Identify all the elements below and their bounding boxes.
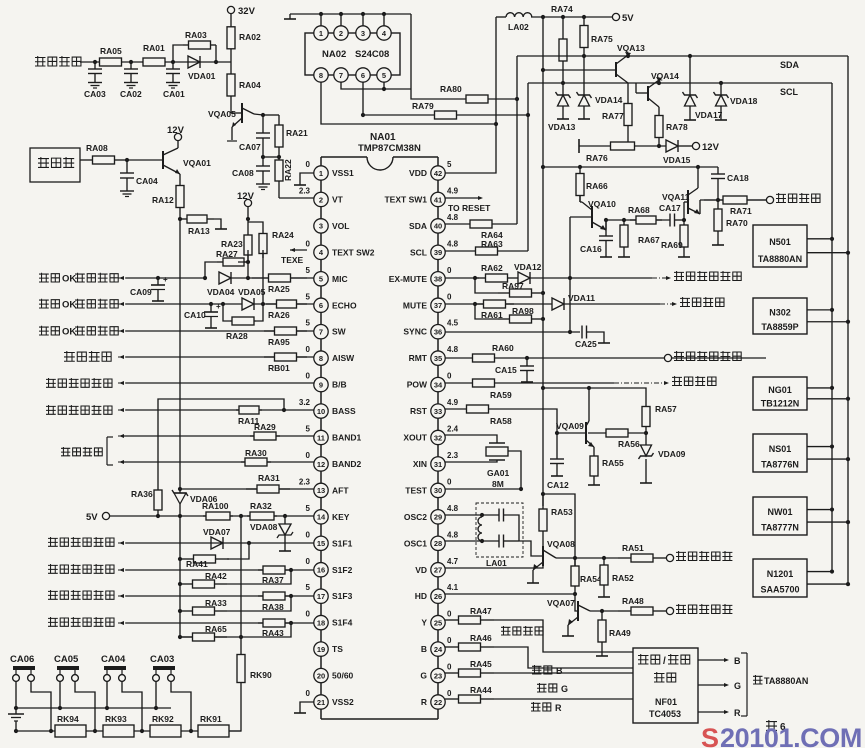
svg-text:0: 0 [447,636,452,645]
junction RA100/RA32 [239,514,243,518]
pin name VSS2 [332,697,354,707]
branch RA97 [475,278,498,293]
capacitor CA09 [130,275,168,297]
svg-text:RA04: RA04 [239,80,261,90]
pin 7 value [306,319,311,328]
svg-text:SDA: SDA [780,60,800,70]
node [261,155,265,159]
wire VDA17 gnd [689,106,691,115]
eeprom pin 5 [377,68,391,82]
wire bottom bus [16,730,241,732]
label 模糊控制 [64,351,111,362]
svg-text:TEXT SW1: TEXT SW1 [384,194,427,204]
svg-text:B: B [556,666,563,676]
svg-text:VQA05: VQA05 [208,109,236,119]
svg-text:RA36: RA36 [131,489,153,499]
branch row17 [227,596,291,611]
svg-text:SYNC: SYNC [403,327,427,337]
resistor RA48 [618,596,666,615]
svg-text:VDA15: VDA15 [663,155,691,165]
wire VDA14 col [583,56,585,95]
junction row18 [289,621,293,625]
resistor RA70 [714,200,748,240]
diode VDA12 [514,262,542,284]
wire RA58 down [510,409,557,433]
label 波段控制 [61,447,102,456]
junction N501 bus1 [830,237,834,241]
junction RA42 bus [178,582,182,586]
label 伴音制式控制 3 [48,617,114,627]
junction rail [382,12,386,16]
label 蓝屏同步控制 [46,378,112,388]
transistor VQA07 [547,598,590,625]
ground CA15 [521,377,533,382]
diode VDA01 [188,56,216,81]
pin 15 S1F1 [314,536,328,550]
svg-text:B: B [734,656,741,666]
wire VDA05 out [254,303,314,305]
diode VDA15 [663,140,691,165]
svg-text:RA56: RA56 [618,439,640,449]
svg-text:2: 2 [319,195,323,204]
svg-text:4.8: 4.8 [447,213,459,222]
pin 14 KEY [314,510,328,524]
junction NG01 bus1 [830,386,834,390]
watermark S20101.COM [701,723,862,748]
label 至TA8880AN [753,675,808,686]
stub N302 bus2 [807,321,848,323]
svg-text:0: 0 [306,345,311,354]
pin 3 VOL [314,219,328,233]
pin name SDA [409,221,427,231]
svg-text:2.3: 2.3 [447,451,459,460]
wire RA22 to pin2 [279,197,314,199]
junction sync x570 [568,330,572,334]
svg-text:RA67: RA67 [638,235,660,245]
resistor RA37 [258,566,290,585]
junction pin5 y89 [382,87,386,91]
svg-text:RA58: RA58 [490,416,512,426]
contact plate RA76 [578,139,580,153]
stub NS01 bus1 [807,446,832,448]
svg-text:6: 6 [361,71,365,80]
wire RA24 down [262,250,264,304]
junction test [519,487,523,491]
resistor RA63 [445,247,528,255]
eeprom pin 7 [334,68,348,82]
svg-text:TC4053: TC4053 [649,709,681,719]
svg-text:5: 5 [306,504,311,513]
svg-text:27: 27 [434,566,442,575]
ground rail left [284,14,296,19]
capacitor CA15 [495,358,534,377]
resistor RA47 [445,606,494,624]
svg-text:CA12: CA12 [547,480,569,490]
svg-text:RA52: RA52 [612,573,634,583]
pin name SCL [410,247,427,257]
ground RA67 [618,252,630,257]
junction NW01 bus1 [830,507,834,511]
ic NW01 TA8777N [753,497,807,535]
junction HD [573,592,577,596]
ground CA16 [600,252,612,257]
svg-text:VQA07: VQA07 [547,598,575,608]
svg-text:VDA04: VDA04 [207,287,235,297]
svg-text:28: 28 [434,539,442,548]
svg-text:NW01: NW01 [767,507,792,517]
pin 25 Y [431,615,445,629]
junction N302 bus2 [846,320,850,324]
svg-text:32V: 32V [238,6,256,17]
pin name RMT [409,353,428,363]
svg-text:12: 12 [317,460,325,469]
ground CA12 [551,471,563,476]
svg-text:RMT: RMT [409,353,428,363]
resistor RA76 [579,142,666,163]
stub N501 bus2 [807,252,848,254]
crystal GA01 8M [486,443,509,489]
svg-text:CA04: CA04 [136,176,158,186]
svg-text:6: 6 [319,301,323,310]
diode VDA05 [238,287,266,310]
label 遥控指令输入 [674,351,741,361]
svg-text:NG01: NG01 [768,385,792,395]
svg-text:RK91: RK91 [200,714,222,724]
svg-text:VD: VD [415,565,427,575]
wire video input line [606,219,670,221]
svg-text:4.1: 4.1 [447,583,459,592]
wire eeprom top riser [362,14,364,26]
wire HD to base [575,594,578,611]
pin 39 SCL [431,245,445,259]
junction x570 exmute [568,276,572,280]
svg-text:19: 19 [317,645,325,654]
junction base node [555,431,559,435]
svg-text:0: 0 [447,372,452,381]
svg-text:34: 34 [434,380,443,389]
arrow sif0 [118,541,126,545]
wire R [494,698,633,700]
svg-text:CA03: CA03 [84,89,106,99]
svg-text:RA60: RA60 [492,343,514,353]
svg-text:5: 5 [306,583,311,592]
svg-text:1: 1 [319,169,323,178]
resistor RA77 [602,83,632,146]
svg-text:S24C08: S24C08 [355,49,389,60]
svg-text:16: 16 [317,566,325,575]
arrow row9 [118,381,126,385]
svg-text:VT: VT [332,194,344,204]
svg-text:41: 41 [434,195,442,204]
junction row17 [289,594,293,598]
pin 25 value [447,610,452,619]
pin 29 value [447,504,459,513]
resistor RA95 [264,327,307,347]
zener VDA14 [577,92,623,106]
svg-text:14: 14 [317,513,326,522]
pin name R [421,697,427,707]
ground VDA13 [557,114,569,119]
svg-text:0: 0 [447,689,452,698]
svg-text:24: 24 [434,645,443,654]
svg-text:SAA5700: SAA5700 [760,585,799,595]
svg-text:RA76: RA76 [586,153,608,163]
pin name B/B [332,380,347,390]
wire VQA08 emitter gnd [532,570,534,578]
label 图6 [766,720,786,733]
terminal 12V RA23 [237,191,255,207]
svg-text:RA62: RA62 [481,263,503,273]
pin name MIC [332,274,348,284]
svg-text:RA47: RA47 [470,606,492,616]
svg-text:9: 9 [319,380,323,389]
capacitor CA02 [120,62,142,99]
pin name VD [415,565,427,575]
svg-text:TA8777N: TA8777N [761,523,799,533]
pin 40 value [447,213,459,222]
svg-text:RA55: RA55 [602,458,624,468]
svg-text:35: 35 [434,354,442,363]
junction RA66 rail [578,165,582,169]
pin 7 SW [314,325,328,339]
terminal line pulse [666,607,673,614]
svg-text:TS: TS [332,644,343,654]
wire to 12V [678,145,692,147]
stub NW01 bus1 [807,509,832,511]
wire RA03 bypass [173,45,183,62]
pin 4 TEXT SW2 [314,245,328,259]
resistor RK94 [55,714,86,737]
svg-text:12V: 12V [702,142,720,153]
junction RA98 bus [541,317,545,321]
pin 27 VD [431,563,445,577]
terminal remote [664,354,671,361]
pin name EX-MUTE [389,274,428,284]
trimmer CA03 [150,654,175,681]
wire VDA04 out [231,277,314,279]
svg-text:RA74: RA74 [551,4,573,14]
junction RA36 5V [156,514,160,518]
svg-text:NF01: NF01 [655,697,677,707]
pin 32 value [447,425,459,434]
junction N302 bus1 [830,308,834,312]
pin 27 value [447,557,459,566]
capacitor CA07 [239,115,270,157]
svg-text:CA03: CA03 [150,654,174,665]
junction SDA/RA75 [582,54,586,58]
resistor RA56 [588,429,646,449]
pin 12 value [306,451,311,460]
svg-text:0: 0 [306,239,311,248]
wire CA04 left drop [106,681,108,708]
resistor RA58 [445,405,512,426]
junction CA15 [525,356,529,360]
ic N501 TA8880AN [753,225,807,267]
pin name S1F2 [332,565,353,575]
wire pin30 [445,488,521,490]
resistor RA23 [221,229,252,261]
pin 33 value [447,398,459,407]
resistor RA52 [600,558,634,592]
svg-text:VQA09: VQA09 [556,421,584,431]
svg-text:BAND2: BAND2 [332,459,362,469]
ic NS01 TA8776N [753,434,807,472]
capacitor CA16 [580,220,613,254]
resistor RA53 [539,494,573,546]
transistor VQA01 [127,141,211,174]
svg-text:RA26: RA26 [268,310,290,320]
svg-text:RA05: RA05 [100,46,122,56]
svg-text:RA27: RA27 [216,249,238,259]
pin 10 value [299,398,311,407]
ground VQA08 [527,578,539,583]
svg-text:RA31: RA31 [258,473,280,483]
pin name RST [410,406,428,416]
svg-text:S1F3: S1F3 [332,591,353,601]
junction AFT bus [178,487,182,491]
wire VDA09 col [645,433,647,445]
junction NS01 bus1 [830,444,834,448]
svg-text:RK93: RK93 [105,714,127,724]
terminal field pulse [666,554,673,561]
svg-text:40: 40 [434,222,442,231]
transistor VQA08 [533,539,575,570]
svg-text:Y: Y [421,618,427,628]
label 伴音制式控制 0 [48,537,114,547]
svg-text:0: 0 [447,292,452,301]
pin name SW [332,327,347,337]
junction RA28 right [261,302,265,306]
ground CA09 [152,296,164,301]
pin name TEXT SW1 [384,194,427,204]
wire to RA24 top [248,222,263,229]
junction N1201 bus1 [830,569,834,573]
eeprom pin 1 [314,26,328,40]
svg-text:5: 5 [382,71,386,80]
svg-text:RA59: RA59 [490,390,512,400]
svg-text:4.9: 4.9 [447,186,459,195]
svg-text:RA65: RA65 [205,624,227,634]
svg-text:TA8859P: TA8859P [761,322,798,332]
junction y388 bus [541,386,545,390]
junction CA05 bus [93,729,97,733]
wire rmt right [522,357,766,359]
pin name AFT [332,485,349,495]
svg-text:/: / [663,656,666,667]
svg-text:+: + [163,275,168,284]
terminal 12V right [692,142,719,153]
svg-text:XIN: XIN [413,459,427,469]
svg-text:VQA14: VQA14 [651,71,679,81]
pin 4 value [306,239,311,248]
svg-text:2.3: 2.3 [299,477,311,486]
wire pin29 [445,514,499,516]
svg-text:TEST: TEST [405,485,428,495]
wire pin18 [126,622,314,624]
wire pin1 gnd [300,173,314,180]
wire bass pullup [158,399,284,484]
svg-text:RA33: RA33 [205,598,227,608]
svg-text:ECHO: ECHO [332,300,357,310]
ground VSS1 [294,180,306,185]
junction [214,60,218,64]
wire VDA17 col [689,56,691,95]
svg-text:N302: N302 [769,307,791,317]
terminal video [766,196,773,203]
pin name BASS [332,406,356,416]
junction RA77/12V line [626,144,630,148]
svg-text:G: G [734,681,741,691]
junction CA03 bus [189,729,193,733]
wire pin5 [126,277,205,279]
svg-text:RA100: RA100 [202,501,229,511]
junction NS01 bus2 [846,457,850,461]
junction RK90 top [239,635,243,639]
resistor RA45 [445,659,494,677]
junction RA75 top [582,15,586,19]
wire mid bus [16,707,171,709]
svg-text:12V: 12V [237,191,255,202]
svg-text:TEXT SW2: TEXT SW2 [332,247,375,257]
wire pin17 [126,595,314,597]
wire CA06 left drop [15,681,17,708]
wire mute right [564,303,660,305]
wire pin21 gnd [300,702,314,708]
wire Y [494,620,633,652]
svg-text:5V: 5V [622,13,634,24]
pin name XIN [413,459,427,469]
svg-text:4.8: 4.8 [447,504,459,513]
resistor RA03 [183,30,216,49]
wire eeprom pin8 line [321,82,496,124]
svg-text:10: 10 [317,407,325,416]
wire pin13 [180,488,314,490]
label SCL [780,87,799,97]
resistor RA02 [227,14,261,62]
pin 23 value [447,663,452,672]
eeprom pin 8 [314,68,328,82]
junction CA18/out [716,198,720,202]
svg-text:RA30: RA30 [245,448,267,458]
svg-text:VSS2: VSS2 [332,697,354,707]
svg-text:11: 11 [317,433,325,442]
riser SDA to pin40 [516,56,518,224]
ground VDA09 [640,478,652,483]
pin 31 value [447,451,459,460]
svg-text:5: 5 [306,292,311,301]
arrow sif3 [118,621,126,625]
resistor RK91 [198,714,229,737]
svg-text:RA22: RA22 [283,159,293,181]
label 低音开关控制 [46,405,112,415]
resistor RA62 [475,263,518,282]
svg-text:42: 42 [434,169,442,178]
svg-text:CA06: CA06 [10,654,34,665]
svg-text:RA32: RA32 [250,501,272,511]
ic NA02 S24C08 box [305,33,400,75]
zener VDA09 [639,445,686,459]
terminal 5V left [86,512,110,523]
svg-text:0: 0 [447,477,452,486]
svg-text:29: 29 [434,513,442,522]
ic N302 TA8859P [753,298,807,334]
svg-text:CA01: CA01 [163,89,185,99]
junction VQA10 emitter [604,218,608,222]
pin name POW [407,380,428,390]
resistor RA27 [216,249,250,266]
rail wrap to RA80 [411,14,437,99]
junction RA56/RA57 [644,431,648,435]
